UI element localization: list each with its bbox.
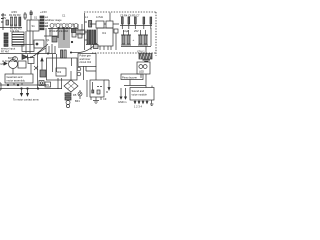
wire xyxy=(0,27,22,29)
chain circle 1 xyxy=(66,101,70,105)
motor M1 xyxy=(9,60,18,69)
ribbon cable wires xyxy=(59,27,69,48)
capacitor C10 xyxy=(144,35,147,44)
wire xyxy=(150,28,152,46)
diode D3 xyxy=(62,24,66,28)
svg-text:+4.5V: +4.5V xyxy=(40,10,47,14)
svg-text:C9: C9 xyxy=(103,97,107,101)
svg-text:Sound and: Sound and xyxy=(132,89,145,93)
small box U4 xyxy=(80,30,85,34)
cam cross xyxy=(34,66,38,70)
resistor R3 xyxy=(19,17,21,26)
legs under box xyxy=(91,97,101,100)
dark blob diode xyxy=(72,29,77,33)
wire xyxy=(0,53,38,55)
svg-text:L1: L1 xyxy=(85,15,88,19)
wire connects top area xyxy=(46,28,50,36)
wire xyxy=(74,24,82,36)
resistor R1 xyxy=(11,17,13,26)
label box geartrain xyxy=(5,74,33,83)
LED box xyxy=(137,62,150,74)
svg-text:BZ1: BZ1 xyxy=(75,99,80,103)
capacitor C8 xyxy=(127,35,130,44)
bridge rectifier diamond xyxy=(64,80,78,92)
small box mid xyxy=(72,32,76,37)
IC U1 xyxy=(97,28,113,46)
box pulse generator xyxy=(78,54,96,67)
wire arrow xyxy=(41,58,43,70)
relay K1 bars xyxy=(87,30,88,44)
svg-text:R1 R2 R3: R1 R2 R3 xyxy=(9,13,21,17)
svg-text:Geartrain and: Geartrain and xyxy=(7,75,23,79)
relay bottom join xyxy=(86,45,96,51)
terminal bracket left xyxy=(0,83,1,90)
capacitor C7 xyxy=(122,35,125,44)
wire xyxy=(141,74,146,88)
junction dot xyxy=(7,84,9,86)
gear circle xyxy=(13,57,18,62)
wire xyxy=(95,66,97,80)
wire diagonals center xyxy=(30,44,48,58)
wire main vertical xyxy=(84,13,86,50)
small loop box xyxy=(22,45,34,52)
big box chassis xyxy=(47,58,78,80)
switch S2 xyxy=(28,58,34,64)
svg-text:1 2 3 4: 1 2 3 4 xyxy=(134,105,142,109)
diode D6 xyxy=(22,55,28,60)
svg-text:GND in: GND in xyxy=(118,100,127,104)
svg-text:+: + xyxy=(133,38,135,42)
ground xyxy=(93,101,99,104)
wire xyxy=(39,25,48,27)
chain circle 2 xyxy=(66,104,69,107)
svg-text:IC1: IC1 xyxy=(102,31,107,35)
svg-text:3V: 3V xyxy=(3,16,6,20)
dashed enclosure top xyxy=(84,11,156,13)
junction dot xyxy=(17,84,19,86)
svg-text:R7 4k7: R7 4k7 xyxy=(1,50,10,54)
wire xyxy=(120,25,152,27)
small box right xyxy=(78,34,82,38)
wire hline mid xyxy=(38,53,56,55)
wire xyxy=(70,52,78,54)
resistor R8 xyxy=(64,50,66,58)
capacitor C3 xyxy=(143,17,145,24)
svg-text:IC3: IC3 xyxy=(57,70,62,74)
wire bottom join xyxy=(121,46,151,48)
wire xyxy=(121,35,148,45)
svg-text:4.7kΩ: 4.7kΩ xyxy=(96,15,103,19)
wire xyxy=(26,31,33,54)
stubs on main vline xyxy=(85,22,88,40)
bus wire xyxy=(0,84,46,86)
crystal Y1 hatched xyxy=(139,54,152,60)
wire component row xyxy=(48,28,78,30)
svg-text:M1: M1 xyxy=(1,62,5,66)
wire xyxy=(52,28,64,40)
svg-text:XTAL1: XTAL1 xyxy=(137,50,145,54)
wire s-curve xyxy=(78,43,97,53)
wire verticals xyxy=(46,44,55,54)
tiny marks between diodes xyxy=(55,23,73,25)
wire xyxy=(151,86,153,88)
diode D1 xyxy=(50,24,54,28)
legs xyxy=(135,100,152,104)
wire S2 down xyxy=(30,64,32,75)
terminal block squares xyxy=(4,33,8,36)
svg-text:Piezo buzzer: Piezo buzzer xyxy=(122,76,137,80)
resistor R6 xyxy=(135,17,137,24)
wire legs xyxy=(122,24,151,29)
svg-text:LED: LED xyxy=(139,70,144,74)
wire xyxy=(45,36,47,44)
wire drop arrows xyxy=(22,89,28,96)
svg-text:Q1: Q1 xyxy=(46,38,50,42)
wire motor down xyxy=(12,69,14,75)
fuse F1 xyxy=(24,12,26,20)
wires entering top xyxy=(53,54,57,72)
diode D4 xyxy=(68,24,72,28)
small round-dot box xyxy=(39,81,44,86)
wire xyxy=(58,78,62,89)
small part X1 xyxy=(114,29,118,33)
wire arrow right xyxy=(104,80,109,88)
leg arrows xyxy=(134,102,148,104)
resistor R2 xyxy=(15,17,17,26)
flat box piezo xyxy=(121,74,143,80)
dashed enclosure right xyxy=(155,12,157,56)
wire diamond top xyxy=(70,71,72,80)
svg-text:S1: S1 xyxy=(32,24,36,28)
wire xyxy=(115,33,117,50)
big box bottom right xyxy=(130,88,154,101)
wire xyxy=(124,80,146,86)
box U5 xyxy=(56,68,66,76)
capacitor C2 xyxy=(89,21,92,28)
junction dots xyxy=(37,53,38,54)
lower box detail xyxy=(90,80,104,97)
wire xyxy=(86,80,88,97)
capacitor C9 xyxy=(139,35,142,44)
svg-text:To motor contact arms: To motor contact arms xyxy=(13,98,39,102)
part dark xyxy=(40,70,46,77)
meter circle xyxy=(78,92,82,96)
output jack circles xyxy=(77,67,81,71)
part with ground left of module xyxy=(121,88,126,99)
junction dot xyxy=(70,52,71,53)
capacitor C14 xyxy=(122,17,124,24)
opto box xyxy=(34,40,44,48)
capacitor C15 xyxy=(128,17,130,24)
wire xyxy=(39,88,41,90)
box U2 xyxy=(96,21,104,28)
svg-text:driver stage: driver stage xyxy=(48,18,62,22)
grounds xyxy=(150,104,153,105)
wire xyxy=(84,66,97,80)
svg-text:C1: C1 xyxy=(62,14,66,18)
small box xyxy=(45,82,51,87)
transistor Q1 blob xyxy=(52,37,57,43)
wire xyxy=(145,46,147,54)
terminal marks left edge xyxy=(2,13,4,30)
svg-text:circuit IC2: circuit IC2 xyxy=(80,60,92,64)
svg-text:motor assembly: motor assembly xyxy=(7,79,26,83)
resistor R5 xyxy=(61,50,63,58)
junction dot xyxy=(71,41,73,43)
switch lever xyxy=(30,10,32,20)
svg-text:voice module: voice module xyxy=(132,93,148,97)
wire xyxy=(14,83,22,85)
resistor R4 xyxy=(150,17,152,24)
dashed enclosure bottom xyxy=(92,52,156,54)
terminal strip marks xyxy=(40,16,44,18)
junction dot xyxy=(37,88,39,90)
junction dots ribbon xyxy=(58,27,59,28)
wire vertical xyxy=(37,54,39,89)
wire xyxy=(44,35,58,37)
wire inside right xyxy=(71,58,73,66)
svg-text:25V: 25V xyxy=(134,29,139,33)
connector J1 xyxy=(12,32,24,46)
svg-text:D5: D5 xyxy=(73,93,77,97)
chain rect 2 xyxy=(65,97,71,100)
dashes xyxy=(106,91,108,93)
junction dots xyxy=(21,88,23,90)
wire cap legs up xyxy=(124,30,146,35)
wire xyxy=(74,30,84,34)
IC pins xyxy=(100,46,111,50)
arrow xyxy=(4,62,7,65)
svg-text:S1: S1 xyxy=(34,16,38,20)
svg-text:C5 R4 C6 R5 C7: C5 R4 C6 R5 C7 xyxy=(120,14,140,18)
box U3 xyxy=(106,21,113,28)
switch box S1 xyxy=(27,20,39,31)
capacitor C1 xyxy=(6,20,9,25)
wire box up xyxy=(109,13,111,22)
wire xyxy=(67,92,69,93)
bus wire xyxy=(0,88,62,90)
wire xyxy=(90,23,119,25)
svg-text:R9: R9 xyxy=(46,83,50,87)
ground xyxy=(143,60,151,62)
chain rect 1 xyxy=(65,93,71,96)
small box near IC pins xyxy=(94,45,99,49)
diode D2 xyxy=(56,24,60,28)
svg-text:10k 10k: 10k 10k xyxy=(10,29,20,33)
gearbox xyxy=(18,61,26,68)
diode D5 xyxy=(74,24,78,28)
LED circles xyxy=(139,65,143,69)
